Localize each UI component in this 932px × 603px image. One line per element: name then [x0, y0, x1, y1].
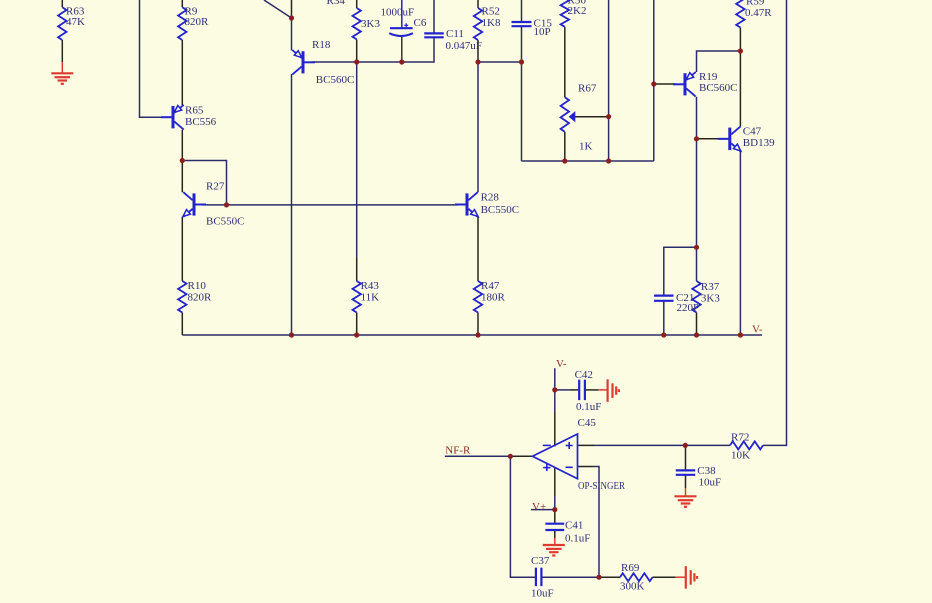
svg-text:BC556: BC556 [185, 116, 217, 128]
part OP-SINGER [578, 480, 626, 492]
wire R9 top stub [181, 0, 183, 7]
svg-text:R69: R69 [621, 562, 640, 574]
wire R19 base [654, 83, 676, 85]
svg-text:V+: V+ [532, 501, 546, 513]
value 47K [66, 16, 85, 28]
resistor R69 [620, 573, 653, 581]
resistor R9 [178, 7, 186, 40]
svg-text:R47: R47 [481, 280, 500, 292]
wire mid vertical [608, 0, 610, 161]
wire C42 ground lead [599, 389, 608, 391]
svg-text:47K: 47K [66, 16, 85, 28]
wire NF-R net [445, 455, 511, 457]
ground C41 [543, 545, 565, 556]
wire R69 to ground [653, 576, 676, 578]
op-amp C45 [533, 434, 578, 479]
wire R28 emitter to R47 [477, 217, 479, 281]
wire R27 collector link [181, 161, 183, 193]
wire R34 node down [356, 62, 358, 258]
svg-text:R28: R28 [481, 191, 500, 203]
label C45 [578, 417, 597, 429]
wire diagonal top feed [264, 0, 292, 18]
value 10uF of C38 [699, 476, 722, 488]
junction [694, 332, 699, 337]
value 3K3 [361, 18, 380, 30]
wire R34 top stub [356, 0, 358, 8]
wire C41 ground lead [554, 538, 556, 545]
junction [694, 136, 699, 141]
resistor R34 [353, 8, 361, 39]
label R34 [327, 0, 346, 7]
junction [738, 332, 743, 337]
svg-text:C47: C47 [743, 126, 762, 138]
svg-text:V-: V- [556, 358, 567, 370]
wire to R18 emitter [291, 18, 293, 50]
svg-text:C38: C38 [697, 465, 716, 477]
svg-text:C11: C11 [446, 28, 464, 40]
wire far right vertical to R72 [763, 0, 787, 445]
value 180R [481, 291, 506, 303]
wire right loop vertical [653, 0, 655, 161]
wire R47 to bus [477, 313, 479, 336]
wire feedback node to R69 [599, 576, 620, 578]
label R10 [188, 280, 207, 292]
wire lower loop bus [522, 160, 654, 162]
transistor R18 [292, 50, 315, 75]
wire C42 left pin [570, 389, 578, 391]
svg-text:BC560C: BC560C [699, 82, 738, 94]
wire C41 stem [554, 510, 556, 524]
label R28 [481, 191, 500, 203]
resistor R43 [353, 281, 361, 313]
wire R67 wiper to vertical [575, 116, 609, 118]
wire C15 bottom stem [521, 26, 523, 62]
label R56 [568, 0, 587, 7]
junction [289, 332, 294, 337]
junction [651, 81, 656, 86]
value 820R of R10 [188, 291, 213, 303]
wire R43 to bus [356, 313, 358, 336]
wire +in to node [594, 444, 685, 446]
value 0.047uF [446, 40, 482, 52]
svg-text:R72: R72 [731, 431, 749, 443]
label R72 [731, 431, 749, 443]
wire C47 base [697, 138, 722, 140]
label C42 [575, 369, 593, 381]
potentiometer R67 [561, 97, 575, 132]
wire feedback [593, 467, 599, 578]
wire C47 emitter to bus [739, 151, 741, 335]
label R19 [699, 71, 718, 83]
resistor R47 [474, 281, 482, 313]
junction [661, 332, 666, 337]
resistor R37 [692, 281, 700, 313]
wire base row R27-R28 [203, 204, 458, 206]
svg-text:OP-SINGER: OP-SINGER [578, 480, 626, 492]
label R67 [578, 83, 597, 95]
svg-text:C37: C37 [531, 555, 550, 567]
wire opamp +in pin [578, 444, 595, 446]
junction [354, 332, 359, 337]
label R43 [361, 280, 380, 292]
junction [596, 575, 601, 580]
svg-text:0.1uF: 0.1uF [576, 401, 601, 413]
value 10K [731, 450, 750, 462]
wire C11 top stem [433, 0, 435, 33]
label R63 [66, 6, 85, 18]
wire V+ stub [531, 509, 555, 511]
wire C15 top stem [521, 0, 523, 22]
svg-text:NF-R: NF-R [445, 445, 471, 457]
wire R63 to ground [61, 40, 63, 62]
junction [289, 15, 294, 20]
value 1000uF [381, 7, 415, 19]
ground R63 [51, 62, 73, 84]
transistor R28 [455, 192, 478, 217]
wire R37 bottom pin [696, 313, 698, 336]
wire bus R18 base / R34 / C6 / C11 [313, 37, 434, 62]
capacitor C21 [654, 296, 674, 301]
resistor R72 [730, 441, 763, 449]
svg-text:1K: 1K [579, 141, 593, 153]
label C47 [743, 126, 762, 138]
svg-text:180R: 180R [481, 291, 506, 303]
label R47 [481, 280, 500, 292]
part BC550C of R28 [481, 204, 520, 216]
value 11K [361, 291, 380, 303]
junction [562, 158, 567, 163]
svg-text:0.47R: 0.47R [745, 7, 772, 19]
wire opamp V- pin [554, 390, 556, 412]
wire C6 top stem [401, 0, 403, 28]
wire C15 node down [521, 62, 523, 161]
transistor C47 [718, 126, 741, 151]
ground C42 (right) [608, 379, 619, 402]
junction [552, 387, 557, 392]
capacitor C42 [579, 380, 585, 401]
capacitor C38 [676, 470, 696, 474]
svg-text:10uF: 10uF [699, 476, 722, 488]
wire R52 top stub [477, 0, 479, 8]
junction [399, 59, 404, 64]
svg-text:1000uF: 1000uF [381, 7, 415, 19]
value 3K3 of R37 [701, 293, 720, 305]
junction [180, 158, 185, 163]
value 220P [677, 302, 700, 314]
value 1K [579, 141, 593, 153]
svg-text:R43: R43 [361, 280, 380, 292]
junction [354, 59, 359, 64]
wire V- stub [554, 368, 556, 390]
wire C6 bottom stem [401, 37, 403, 62]
svg-text:3K3: 3K3 [701, 293, 720, 305]
wire R43 top pin [356, 258, 358, 281]
ground R69 (right) [686, 566, 697, 589]
value 0.1uF of C42 [576, 401, 601, 413]
svg-text:R27: R27 [206, 181, 225, 193]
label C37 [531, 555, 550, 567]
svg-text:C41: C41 [565, 519, 583, 531]
label C21 [676, 292, 694, 304]
svg-text:3K3: 3K3 [361, 18, 380, 30]
resistor R52 [474, 8, 482, 40]
label C6 [414, 17, 427, 29]
resistor R10 [178, 281, 186, 313]
svg-text:0.047uF: 0.047uF [446, 40, 482, 52]
svg-text:11K: 11K [361, 291, 380, 303]
wire opamp -in stub [578, 466, 594, 468]
svg-text:10uF: 10uF [531, 587, 554, 599]
capacitor C11 [424, 33, 444, 37]
wire left vertical feed to R65 base [140, 0, 162, 117]
svg-text:BC550C: BC550C [481, 204, 520, 216]
value 820R [185, 16, 210, 28]
wire C38 ground lead [685, 488, 687, 496]
wire opamp output pin [510, 455, 532, 457]
svg-text:1K8: 1K8 [482, 17, 501, 29]
wire R9 to R65 emitter [181, 40, 183, 105]
wire C41 to ground [554, 530, 556, 538]
svg-text:C6: C6 [414, 17, 427, 29]
part BC560C of R19 [699, 82, 738, 94]
wire opamp V- pin inner [554, 412, 556, 447]
part BD139 [743, 137, 775, 149]
part BC550C of R27 [206, 215, 245, 227]
wire C21 to bus [663, 301, 665, 335]
wire V- bus [182, 334, 762, 336]
label R52 [482, 6, 500, 18]
wire C21 branch [664, 247, 697, 295]
capacitor C15 [512, 22, 532, 26]
wire R67 to loop bus [564, 132, 566, 161]
wire R27 loop [182, 161, 226, 205]
net V- opamp [556, 358, 567, 370]
svg-text:10K: 10K [731, 450, 750, 462]
value 2K2 [568, 5, 587, 17]
svg-text:R37: R37 [701, 281, 720, 293]
svg-text:220P: 220P [677, 302, 700, 314]
capacitor C41 [545, 524, 564, 530]
junction [508, 454, 513, 459]
label C41 [565, 519, 583, 531]
wire R27 emitter to R10 [181, 217, 183, 281]
wire C37 to feedback node [541, 576, 599, 578]
wire R72 to node [685, 444, 730, 446]
svg-text:R18: R18 [312, 39, 331, 51]
junction [552, 507, 557, 512]
junction [606, 114, 611, 119]
label R65 [185, 105, 204, 117]
resistor R63 [58, 7, 66, 40]
junction [519, 59, 524, 64]
wire NF-R node down to C37 [510, 456, 536, 577]
svg-text:BD139: BD139 [743, 137, 775, 149]
wire bus R52 C15 [478, 61, 522, 63]
ground C38 [675, 496, 697, 507]
svg-text:C42: C42 [575, 369, 593, 381]
svg-text:820R: 820R [188, 291, 213, 303]
resistor R59 [736, 0, 744, 28]
svg-text:V-: V- [752, 323, 763, 335]
junction [475, 332, 480, 337]
value 0.47R [745, 7, 772, 19]
transistor R65 [161, 105, 184, 130]
wire node to C47 collector [739, 51, 741, 126]
svg-text:R34: R34 [327, 0, 346, 7]
wire R10 to bus [181, 313, 183, 336]
value 0.1uF of C41 [565, 532, 590, 544]
wire C42 right pin [586, 389, 599, 391]
value 1K8 [482, 17, 501, 29]
wire top vertical to R18 [291, 0, 293, 18]
net V+ [532, 501, 546, 513]
resistor R56 [561, 0, 569, 27]
label R18 [312, 39, 331, 51]
junction [475, 59, 480, 64]
svg-text:BC550C: BC550C [206, 215, 245, 227]
label R9 [185, 6, 198, 18]
svg-text:820R: 820R [185, 16, 210, 28]
wire R65 collector down [181, 130, 183, 161]
part BC560C of R18 [316, 74, 355, 86]
wire R19 collector down [696, 97, 698, 281]
capacitor C37 [536, 568, 542, 587]
svg-text:10P: 10P [534, 26, 551, 38]
junction [683, 443, 688, 448]
svg-text:300K: 300K [620, 580, 645, 592]
svg-text:R67: R67 [578, 83, 597, 95]
junction [224, 202, 229, 207]
part BC556 [185, 116, 217, 128]
svg-text:BC560C: BC560C [316, 74, 355, 86]
wire R18 collector down to bus [291, 74, 293, 335]
wire R59 to node [739, 28, 741, 52]
label C38 [697, 465, 716, 477]
transistor R19 [673, 72, 696, 97]
svg-text:R19: R19 [699, 71, 718, 83]
junction [694, 245, 699, 250]
junction [738, 48, 743, 53]
svg-text:0.1uF: 0.1uF [565, 532, 590, 544]
wire R19 emitter up and over [697, 51, 741, 72]
wire R34 to bus [356, 39, 358, 62]
net V- bus [752, 323, 763, 335]
svg-text:C45: C45 [578, 417, 597, 429]
transistor R27 [183, 192, 206, 217]
label C11 [446, 28, 464, 40]
wire R69 ground lead [676, 576, 686, 578]
label R69 [621, 562, 640, 574]
wire R52 to node [477, 40, 479, 62]
label R37 [701, 281, 720, 293]
svg-text:R65: R65 [185, 105, 204, 117]
value 10P [534, 26, 551, 38]
label C15 [534, 17, 553, 29]
capacitor C6 [389, 23, 413, 36]
wire R56 to R67 [564, 27, 566, 97]
label R27 [206, 181, 225, 193]
label R59 [746, 0, 765, 8]
net NF-R [445, 445, 471, 457]
wire node to C42 [555, 389, 570, 391]
wire opamp V+ pin inner [554, 468, 556, 497]
wire R63 top stub [61, 0, 63, 7]
wire C38 stem [685, 445, 687, 470]
svg-text:R10: R10 [188, 280, 207, 292]
value 300K [620, 580, 645, 592]
value 10uF of C37 [531, 587, 554, 599]
svg-text:2K2: 2K2 [568, 5, 587, 17]
junction [606, 158, 611, 163]
wire R28 collector up [477, 62, 479, 192]
wire C38 to ground [685, 475, 687, 488]
wire opamp V+ pin [554, 496, 556, 510]
